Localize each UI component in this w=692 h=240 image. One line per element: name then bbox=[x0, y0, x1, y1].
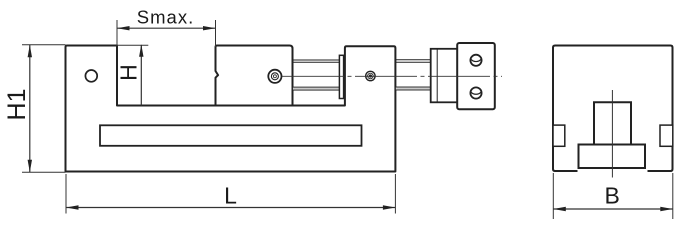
lead screw shaft between movable jaw and washer plate bbox=[293, 60, 340, 90]
dimension H bbox=[116, 44, 149, 105]
svg-text:H: H bbox=[116, 64, 142, 81]
hole in fixed jaw bbox=[85, 70, 97, 82]
end view outer block bbox=[553, 46, 673, 172]
end view vertical center line bbox=[611, 90, 613, 178]
svg-text:H1: H1 bbox=[3, 89, 31, 121]
movable jaw with break notch on left edge bbox=[216, 46, 293, 106]
svg-text:L: L bbox=[224, 182, 237, 208]
end nut drum bbox=[457, 43, 495, 109]
end view left side notch bbox=[553, 125, 565, 146]
bearing screw on end wall bbox=[366, 71, 375, 80]
slotted screw top on drum bbox=[470, 55, 481, 66]
slotted screw bottom on drum bbox=[470, 87, 481, 98]
socket head screw on movable jaw bbox=[268, 70, 281, 83]
dimension H1 bbox=[3, 45, 66, 173]
lead screw shaft right of end wall bbox=[395, 60, 430, 90]
screw axis center line bbox=[282, 75, 502, 77]
base slot in body bbox=[100, 125, 362, 146]
end view slide base bbox=[579, 145, 646, 169]
end view jaw boss bbox=[594, 102, 631, 144]
svg-text:Smax.: Smax. bbox=[137, 7, 194, 28]
dimension Smax. bbox=[117, 7, 216, 48]
dimension B bbox=[553, 173, 673, 219]
washer plate against end wall bbox=[339, 55, 343, 98]
svg-text:B: B bbox=[605, 182, 620, 208]
dimension L bbox=[66, 174, 395, 214]
vise body outline with fixed jaw and right end wall (side view) bbox=[66, 46, 396, 172]
screw collar bbox=[431, 49, 458, 103]
end view right side notch bbox=[660, 125, 673, 146]
